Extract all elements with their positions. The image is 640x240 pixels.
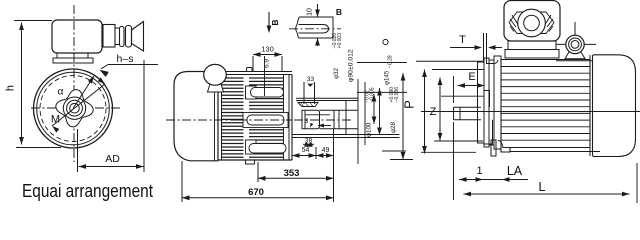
svg-text:B: B [270,19,280,25]
svg-text:49: 49 [322,147,330,154]
svg-text:E: E [468,71,475,83]
svg-text:AD: AD [105,153,120,165]
hub circle inner [70,103,80,113]
svg-text:33: 33 [307,76,315,83]
right body fins [501,66,590,68]
keyway slot [299,25,329,34]
stator body right edge [283,75,285,161]
gear housing bottom [292,134,400,136]
flange plate 4 [494,56,501,149]
eyebolt ring (right) [566,35,584,53]
extension shaft-end / right dims [333,129,335,202]
eyebolt centerline v (right) [574,22,576,58]
flange plate 3 [489,60,494,145]
label phi28 tol [389,87,400,133]
fin slot bottom-left [246,140,257,154]
right shaft end [453,107,455,120]
terminal box base 2 (right) [505,50,559,59]
cowl junction (right view) [589,55,591,156]
svg-text:φ100: φ100 [366,122,373,137]
eyebolt hole (right) [571,41,579,49]
right view centerline [421,111,640,113]
centerline overlay (middle slot) [238,119,292,121]
leader h-s [108,64,158,66]
eyebolt ring middle (right) [569,38,582,51]
right shaft key upper [484,91,490,108]
svg-text:54: 54 [302,147,310,154]
keyway detail outline [296,17,333,38]
top cap lug [247,68,253,72]
svg-text:−0.036: −0.036 [394,87,400,103]
terminal box neck [57,53,88,58]
dimension E [458,85,485,87]
terminal box lens hatch right [547,19,553,27]
gear housing barrel step [345,101,347,135]
stator cooling fins [222,77,284,79]
cable gland horn [132,22,144,52]
shaft hub block [302,110,320,128]
extension x316 [315,147,317,159]
dimension 130 extensions [252,56,254,71]
fin slot top-right [251,88,284,98]
svg-text:10: 10 [307,8,314,16]
svg-text:3: 3 [305,118,309,125]
shaft top line [320,109,358,111]
stator foot notch [246,160,255,164]
ref line y92 [357,91,407,93]
eyebolt centerline h (right) [556,43,596,45]
extension line x358 [357,79,359,164]
svg-text:B: B [336,7,342,17]
shaft lower extension line [453,122,455,200]
label phi32 tol [332,33,343,79]
fin vertical channel [244,76,250,159]
phi145 dim arrows [379,88,381,135]
right foot top line [434,140,483,142]
cable gland neck [115,28,120,45]
dimension h [21,23,23,145]
dimension 353 [258,177,334,179]
svg-text:+0.003: +0.003 [337,33,343,49]
fin slot middle band [243,113,288,128]
stator body left edge [221,72,223,161]
label phi100 tol [365,87,376,137]
terminal box lens [509,12,554,34]
dimension Z outer [424,70,426,154]
right foot step [498,141,600,152]
terminal box (front view) [52,20,102,53]
dimension P [402,73,404,160]
shaft end edge [333,110,335,128]
stator body bottom [218,159,292,161]
leader 6.9 [264,56,266,96]
dimension T arrows [450,47,476,49]
gearhead top line 2 [432,69,484,71]
gear hub cap [298,103,318,107]
svg-text:M: M [51,114,60,126]
dimension 10 arrows [317,4,319,17]
label phi145 tol [384,55,394,85]
Z bottom ref line [421,151,476,153]
ref line y159 [390,159,413,161]
phi145 circle mark [383,39,388,44]
svg-text:h–s: h–s [117,53,134,65]
flange lower block [491,140,496,156]
dimension Z inner [439,78,441,141]
dimension AD [79,166,144,168]
E extension / shaft upper ext [453,76,455,103]
shaft bottom line [320,128,358,130]
cowl junction line [217,72,219,161]
dimension AD right extension [143,60,145,172]
svg-text:Z: Z [430,106,437,118]
terminal gland circle outer [518,9,546,37]
terminal box lens hatch left [510,19,516,27]
inner leader arrow [318,125,331,127]
dimension L [464,193,630,195]
svg-text:130: 130 [261,45,274,54]
eyebolt base (right) [565,52,585,59]
shaft hub inner [304,110,306,128]
gear housing top [296,97,358,99]
svg-text:670: 670 [248,187,264,198]
terminal box base 1 (right) [508,41,556,50]
svg-text:353: 353 [284,168,300,179]
ref line y62 [357,62,407,64]
right shaft key lower [484,120,493,144]
eyebolt ring (middle) [204,64,227,85]
stator top cap [222,71,292,73]
fan cowl (right view) [593,55,636,157]
svg-text:6.9: 6.9 [264,59,271,68]
motor housing inner circle [37,72,110,145]
left view vertical centerline [73,5,75,162]
svg-text:L: L [539,180,546,194]
terminal box (right) [504,1,560,42]
svg-text:φ90±0.012: φ90±0.012 [348,49,355,82]
extension line x365 [364,82,366,145]
flange plate 1 [478,62,485,143]
svg-text:1: 1 [476,165,482,177]
right body top behind eyebolt [556,60,592,62]
right body outline [501,60,590,153]
terminal box base plate [53,58,93,63]
dimension 353 extension [257,162,259,182]
dimension 130 [253,54,282,56]
short radial arrow [73,76,94,109]
right shaft bottom [454,119,482,121]
dimension 49 [316,155,334,157]
dimension 54 [292,155,316,157]
dimension 33 extensions [303,82,305,104]
key end on shaft [459,107,461,120]
gear hub cap hatch [301,103,304,106]
svg-text:h: h [5,85,17,91]
key reference line [441,95,484,97]
dimension 670 [182,197,334,199]
flange plate 2 [484,58,489,147]
left view horizontal centerline [31,107,120,109]
svg-text:φ28: φ28 [390,122,397,133]
svg-text:α: α [58,87,64,98]
cable gland body [103,25,115,48]
dashed bolt circle [40,76,106,142]
cowl junction inner line [214,72,216,161]
svg-text:−0.28: −0.28 [387,55,393,68]
fin slot bottom-right [249,144,286,154]
cable gland ring 1 [120,27,125,47]
right shaft top [454,106,482,108]
dimension 1-LA line [459,179,528,181]
dimension AD left extension [77,129,79,172]
ref line y151 [382,150,406,152]
diagonal diameter arrow [52,84,105,126]
L right extension [636,163,638,203]
shaft keyway line [305,114,330,116]
terminal gland circle inner [524,15,540,31]
svg-text:T: T [459,34,466,46]
T extension lines [483,33,485,63]
keyway detail centerline [289,28,341,30]
hub circle middle [67,100,83,116]
svg-text:φ145: φ145 [384,70,391,85]
fan cowl (side view) [174,72,218,161]
fin slot middle inner [247,115,284,125]
eyebolt base (middle) [208,84,224,92]
middle view centerline [166,119,352,121]
hub circle outer [63,97,85,119]
svg-text:−0.005: −0.005 [369,87,375,103]
right body top-left corner [486,60,498,64]
gearhead top line 1 [416,60,484,62]
svg-text:LA: LA [507,164,523,178]
section arrow B [268,12,270,31]
dimension 670 extension [181,161,183,202]
four-lobe shaft boss [56,90,93,127]
svg-text:Equai arrangement: Equai arrangement [22,181,153,201]
ground line under front view [16,147,61,149]
cable gland ring 2 [126,26,132,48]
svg-text:φ32: φ32 [333,68,340,79]
shaft step edge [338,110,340,128]
motor outer circle [34,69,113,148]
phi100 dim arrows [373,94,375,124]
dimension h top extension line [14,20,52,22]
svg-text:P: P [402,100,417,109]
fin slot top-left [246,86,257,99]
